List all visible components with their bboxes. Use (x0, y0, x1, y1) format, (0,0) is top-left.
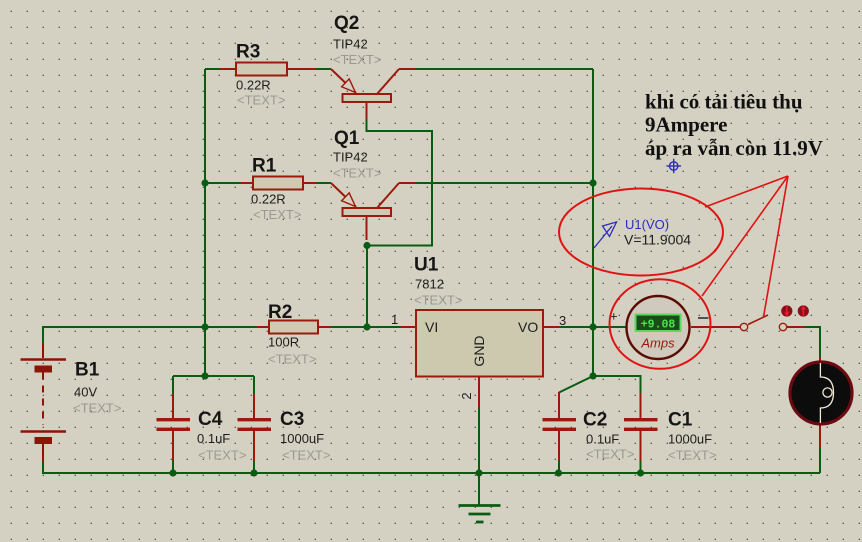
svg-text:R3: R3 (236, 42, 260, 63)
capacitor C2 (543, 392, 577, 461)
wire: C3 top green (253, 376, 255, 394)
svg-text:1000uF: 1000uF (668, 432, 712, 447)
wire: switch to top-right corner and down to lamp (805, 327, 820, 357)
wire: input rail from battery to R2 (43, 327, 257, 343)
wire: Q2 collector to right bus (415, 68, 593, 70)
switch SW (load switch) (740, 315, 805, 331)
svg-text:0.22R: 0.22R (236, 78, 271, 93)
resistor R2 (257, 321, 331, 334)
svg-text:<TEXT>: <TEXT> (668, 448, 716, 463)
junction: Q1 collector / right bus (589, 179, 596, 186)
capacitor C1 (624, 393, 658, 461)
svg-text:C4: C4 (198, 409, 223, 430)
svg-text:Amps: Amps (640, 336, 675, 351)
ammeter (Amps probe) (627, 296, 741, 359)
svg-text:VO: VO (518, 319, 538, 335)
svg-text:TIP42: TIP42 (333, 37, 368, 52)
svg-text:+9.08: +9.08 (641, 319, 676, 332)
resistor R3 (220, 63, 316, 76)
wire: C4-C3 top bar (173, 375, 254, 377)
svg-text:0.1uF: 0.1uF (586, 432, 619, 447)
annotation: red ring around ammeter (610, 279, 711, 369)
transistor Q2 (TIP42 PNP) (331, 69, 415, 119)
junction: C1 / ground rail (637, 469, 644, 476)
wire: input rail from R2 to U1 VI (331, 326, 401, 328)
annotation: red pointer lines from text to ellipse, ammeter and switch (702, 176, 788, 317)
svg-text:Q1: Q1 (334, 128, 360, 149)
svg-text:<TEXT>: <TEXT> (268, 352, 316, 367)
svg-text:GND: GND (471, 335, 487, 366)
svg-text:V=11.9004: V=11.9004 (624, 232, 691, 248)
battery B1 (21, 343, 67, 462)
wire: C4 top green (172, 376, 174, 394)
svg-text:Q2: Q2 (334, 13, 359, 34)
svg-text:1: 1 (391, 312, 398, 327)
switch toggle up-arrow button (798, 305, 809, 316)
wire: output node diagonal to C2 (559, 376, 593, 393)
annotation origin crosshair marker (667, 159, 682, 173)
svg-text:C1: C1 (668, 410, 693, 431)
svg-text:áp ra vẫn còn 11.9V: áp ra vẫn còn 11.9V (645, 136, 823, 160)
svg-text:9Ampere: 9Ampere (645, 113, 727, 137)
svg-text:R1: R1 (252, 156, 277, 177)
svg-text:2: 2 (459, 392, 474, 399)
capacitor C4 (157, 394, 191, 461)
wire: C4 bottom green (172, 461, 174, 473)
svg-text:<TEXT>: <TEXT> (198, 448, 246, 463)
wire: right bus vertical (collector/VO node) (592, 69, 594, 376)
wire: C2 bottom green (558, 461, 560, 473)
svg-text:40V: 40V (74, 385, 97, 400)
svg-text:<TEXT>: <TEXT> (237, 93, 285, 108)
lamp LP1 (load) (790, 357, 852, 448)
svg-text:<TEXT>: <TEXT> (586, 447, 634, 462)
svg-text:1000uF: 1000uF (280, 431, 324, 446)
annotation: red ellipse around voltage probe readout (559, 189, 723, 276)
wire: left bus vertical from R3 row down to cap bar (204, 69, 206, 376)
wire: U1 VO to output node (560, 326, 593, 328)
svg-text:3: 3 (559, 313, 566, 328)
svg-text:<TEXT>: <TEXT> (333, 166, 381, 181)
junction: input rail / base branch (363, 323, 370, 330)
wire: Q1 collector to right bus (415, 182, 593, 184)
transistor Q1 (TIP42 PNP) (331, 183, 415, 240)
capacitor C3 (238, 394, 272, 461)
resistor R1 (241, 177, 317, 190)
wire: output node to ammeter (593, 326, 627, 328)
svg-text:<TEXT>: <TEXT> (414, 293, 462, 308)
svg-text:C2: C2 (583, 410, 607, 431)
wire: ground stem below rail (478, 407, 480, 505)
svg-text:100R: 100R (268, 335, 299, 350)
junction: C4-C3 bar / left bus (201, 372, 208, 379)
junction: input rail / left bus (201, 323, 208, 330)
svg-text:0.22R: 0.22R (251, 192, 286, 207)
svg-text:TIP42: TIP42 (333, 150, 368, 165)
wire: C1 bottom green (640, 461, 642, 473)
wire: output node to C1 (593, 376, 641, 393)
junction: R1 row / left bus (201, 179, 208, 186)
svg-text:7812: 7812 (415, 277, 444, 292)
svg-text:B1: B1 (75, 360, 100, 381)
wire: base node down to input rail (366, 246, 368, 328)
ground (459, 506, 501, 523)
wire: R1 left stub (205, 182, 241, 184)
svg-text:khi có tải tiêu thụ: khi có tải tiêu thụ (645, 90, 803, 114)
junction: output node VO (589, 323, 596, 330)
svg-text:C3: C3 (280, 409, 304, 430)
wire: R3 right to Q2 emitter (316, 68, 331, 70)
wire: Q2 base loop to Q1 base (367, 119, 433, 246)
svg-text:<TEXT>: <TEXT> (333, 52, 381, 67)
svg-text:<TEXT>: <TEXT> (253, 207, 301, 222)
switch toggle down-arrow button (781, 305, 792, 316)
wire: C3 bottom green (253, 461, 255, 473)
junction: C2 / ground rail (555, 469, 562, 476)
wire: R3 left stub (205, 68, 220, 70)
junction: C3 / ground rail (250, 469, 257, 476)
wire: bottom ground rail (43, 462, 820, 473)
ammeter - terminal mark (698, 317, 709, 319)
junction: base node (363, 242, 370, 249)
junction: C4 / ground rail (169, 469, 176, 476)
voltage probe arrow (blue) (594, 222, 617, 248)
svg-text:<TEXT>: <TEXT> (282, 448, 330, 463)
junction: ground symbol / ground rail (475, 469, 482, 476)
svg-text:VI: VI (425, 319, 438, 335)
junction: right bus / C2-C1 bar (589, 372, 596, 379)
svg-text:U1(VO): U1(VO) (625, 217, 669, 232)
svg-text:U1: U1 (414, 255, 439, 276)
wire: lamp bottom to ground rail (819, 448, 821, 473)
op-amp/regulator U1 (7812) (401, 310, 560, 408)
wire: R1 right to Q1 emitter (317, 182, 331, 184)
svg-text:0.1uF: 0.1uF (197, 431, 230, 446)
svg-text:<TEXT>: <TEXT> (73, 401, 121, 416)
svg-text:R2: R2 (268, 302, 292, 323)
